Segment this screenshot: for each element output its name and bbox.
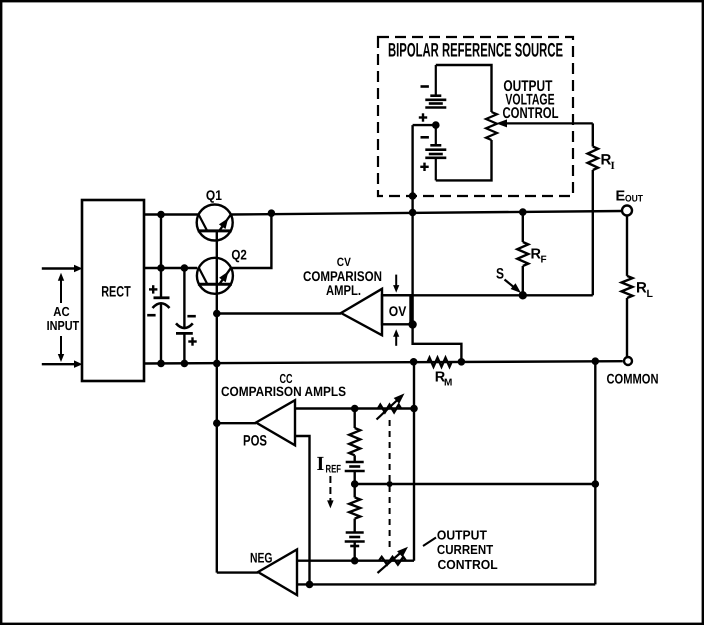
- potentiometer R2 OUTPUT VOLTAGE CONTROL: [486, 112, 593, 140]
- wire: RI bottom down to sense line: [592, 170, 594, 295]
- rectifier block RECT: [82, 200, 144, 381]
- resistor RM (current sense) on common rail: [428, 358, 453, 389]
- wire: RECT mid output line: [144, 267, 197, 269]
- AC INPUT span arrows and label: [47, 273, 80, 362]
- junction: C1 top on +rail: [157, 211, 165, 219]
- svg-text:RECT: RECT: [101, 284, 131, 301]
- terminal EOUT: [616, 189, 644, 216]
- transistor Q1: [197, 187, 233, 241]
- rheostat R6 OUTPUT CURRENT CONTROL: [378, 547, 409, 573]
- svg-text:M: M: [444, 377, 452, 388]
- wire: POS output to drive vertical: [217, 422, 256, 424]
- wire: reference midpoint down to +output rail and OV box: [411, 125, 413, 324]
- junction: chain midpoint: [351, 480, 359, 488]
- svg-text:I: I: [611, 160, 615, 172]
- battery B2 (lower reference cell): [420, 125, 446, 180]
- wire: NEG - input line: [297, 583, 595, 585]
- junction: OV bottom to main vertical: [408, 320, 416, 328]
- junction: POS- on NEG- line: [306, 581, 314, 589]
- resistor R3 (chain upper): [349, 409, 360, 463]
- svg-text:OUT: OUT: [625, 194, 643, 205]
- wire: OV bottom jog to common rail: [413, 324, 462, 361]
- svg-text:AMPL.: AMPL.: [326, 282, 361, 298]
- junction: jog on common rail: [458, 358, 466, 366]
- wire: ganged control dashed link: [389, 420, 391, 550]
- svg-text:NEG: NEG: [250, 549, 273, 565]
- svg-text:REF: REF: [326, 464, 342, 476]
- junction: RF top on +rail: [519, 208, 527, 216]
- label: OUTPUT VOLTAGE CONTROL: [503, 78, 559, 122]
- wire: wiper line down to RI: [592, 123, 594, 146]
- wire: Q2 right lead up to +rail: [231, 213, 271, 268]
- label/arrow: IREF reference current: [317, 453, 342, 508]
- svg-text:OV: OV: [389, 303, 407, 319]
- resistor R4 (chain lower): [349, 484, 360, 533]
- junction: drive with POS output: [213, 419, 221, 427]
- svg-text:OUTPUT: OUTPUT: [437, 528, 487, 543]
- resistor RI: [588, 147, 615, 173]
- svg-text:E: E: [616, 189, 626, 205]
- junction: mid tap / gang link crossing: [387, 481, 393, 487]
- wiper S arrow: [496, 266, 521, 294]
- junction: drive with CV output: [213, 310, 221, 318]
- svg-text:F: F: [541, 255, 547, 266]
- junction: C2 bottom on common rail: [181, 360, 189, 368]
- svg-text:CONTROL: CONTROL: [438, 557, 498, 572]
- svg-text:BIPOLAR REFERENCE SOURCE: BIPOLAR REFERENCE SOURCE: [388, 39, 563, 61]
- svg-text:COMMON: COMMON: [607, 371, 659, 387]
- wire: right branch down to NEG input: [594, 361, 596, 584]
- svg-text:Q1: Q1: [206, 187, 222, 203]
- wire: common rail down to CC network: [413, 362, 415, 561]
- resistor RL (load): [622, 216, 654, 357]
- svg-text:CONTROL: CONTROL: [503, 105, 559, 122]
- junction: right branch / mid tap line: [592, 480, 600, 488]
- junction: chain top on POS+ line: [351, 405, 359, 413]
- resistor RF (feedback): [517, 212, 546, 295]
- junction: C1 on mid line: [157, 264, 165, 272]
- svg-text:CURRENT: CURRENT: [437, 542, 493, 557]
- wire: common rail: [144, 361, 623, 363]
- svg-text:R: R: [636, 280, 647, 297]
- junction: on +output rail: [409, 209, 417, 217]
- svg-text:CV: CV: [337, 255, 351, 269]
- svg-text:I: I: [317, 453, 325, 475]
- capacitor C2 (filter): [176, 268, 197, 364]
- label: OUTPUT CURRENT CONTROL with leader: [423, 528, 498, 573]
- op-amp U1 CV comparison ampl: [303, 255, 382, 335]
- wire: NEG + input line: [297, 560, 414, 562]
- junction: CC pot line: [410, 405, 418, 413]
- wire: mid tap line to right branch: [355, 483, 596, 485]
- label: CC COMPARISON AMPLS: [221, 371, 346, 399]
- wire: POS - input down to NEG - line: [295, 436, 310, 584]
- wire: B2 bottom to potentiometer bottom: [436, 140, 492, 180]
- op-amp U3 NEG current comparison amp: [250, 549, 297, 595]
- junction: RM left / down feed: [410, 358, 418, 366]
- svg-text:INPUT: INPUT: [47, 318, 80, 333]
- wire: B1 top to potentiometer top: [436, 65, 492, 112]
- wire: voltage sense line (CV + input): [382, 294, 593, 296]
- svg-text:AC: AC: [53, 304, 70, 319]
- junction: chain bottom on NEG+ line: [351, 557, 359, 565]
- junction: S on sense line: [519, 291, 527, 299]
- terminal COMMON: [607, 357, 659, 387]
- junction: Q2 loop on +rail: [268, 209, 276, 217]
- wire: NEG output to drive vertical: [217, 571, 258, 573]
- junction: C2 on mid line: [181, 264, 189, 272]
- battery B1 (upper reference cell): [419, 65, 447, 122]
- junction: drive with common rail: [213, 360, 221, 368]
- svg-text:L: L: [647, 288, 654, 300]
- transistor Q2: [197, 247, 247, 294]
- capacitor C1 (filter): [147, 215, 169, 364]
- bipolar reference source enclosure (dashed box): [378, 37, 573, 196]
- svg-text:Q2: Q2: [231, 247, 247, 263]
- svg-text:POS: POS: [243, 432, 267, 449]
- wire: POS + input line: [295, 407, 414, 409]
- battery B3 (chain upper cell): [345, 462, 365, 484]
- label: BIPOLAR REFERENCE SOURCE: [385, 39, 566, 61]
- wire: reference midpoint to main vertical: [413, 124, 436, 126]
- meter box OV (output voltage): [382, 275, 411, 346]
- wire: Q1/Q2 base drive vertical: [216, 231, 218, 573]
- wire: CV output to drive vertical: [217, 312, 341, 314]
- svg-text:S: S: [496, 266, 504, 283]
- node: reference midpoint junction: [432, 121, 440, 129]
- junction: C1 bottom on common rail: [157, 360, 165, 368]
- op-amp U2 POS current comparison amp: [243, 400, 295, 449]
- battery B4 (chain lower cell): [345, 533, 365, 561]
- rheostat R5 (CC adjust, upper): [377, 393, 405, 419]
- wire: AC input lower lead: [42, 360, 83, 368]
- wire: AC input upper lead: [42, 265, 83, 272]
- svg-text:COMPARISON AMPLS: COMPARISON AMPLS: [221, 384, 346, 399]
- junction: common rail / right branch: [592, 357, 600, 365]
- wire: +output rail (RECT to EOUT): [144, 211, 622, 215]
- junction: dashed-box border crossing: [409, 192, 417, 200]
